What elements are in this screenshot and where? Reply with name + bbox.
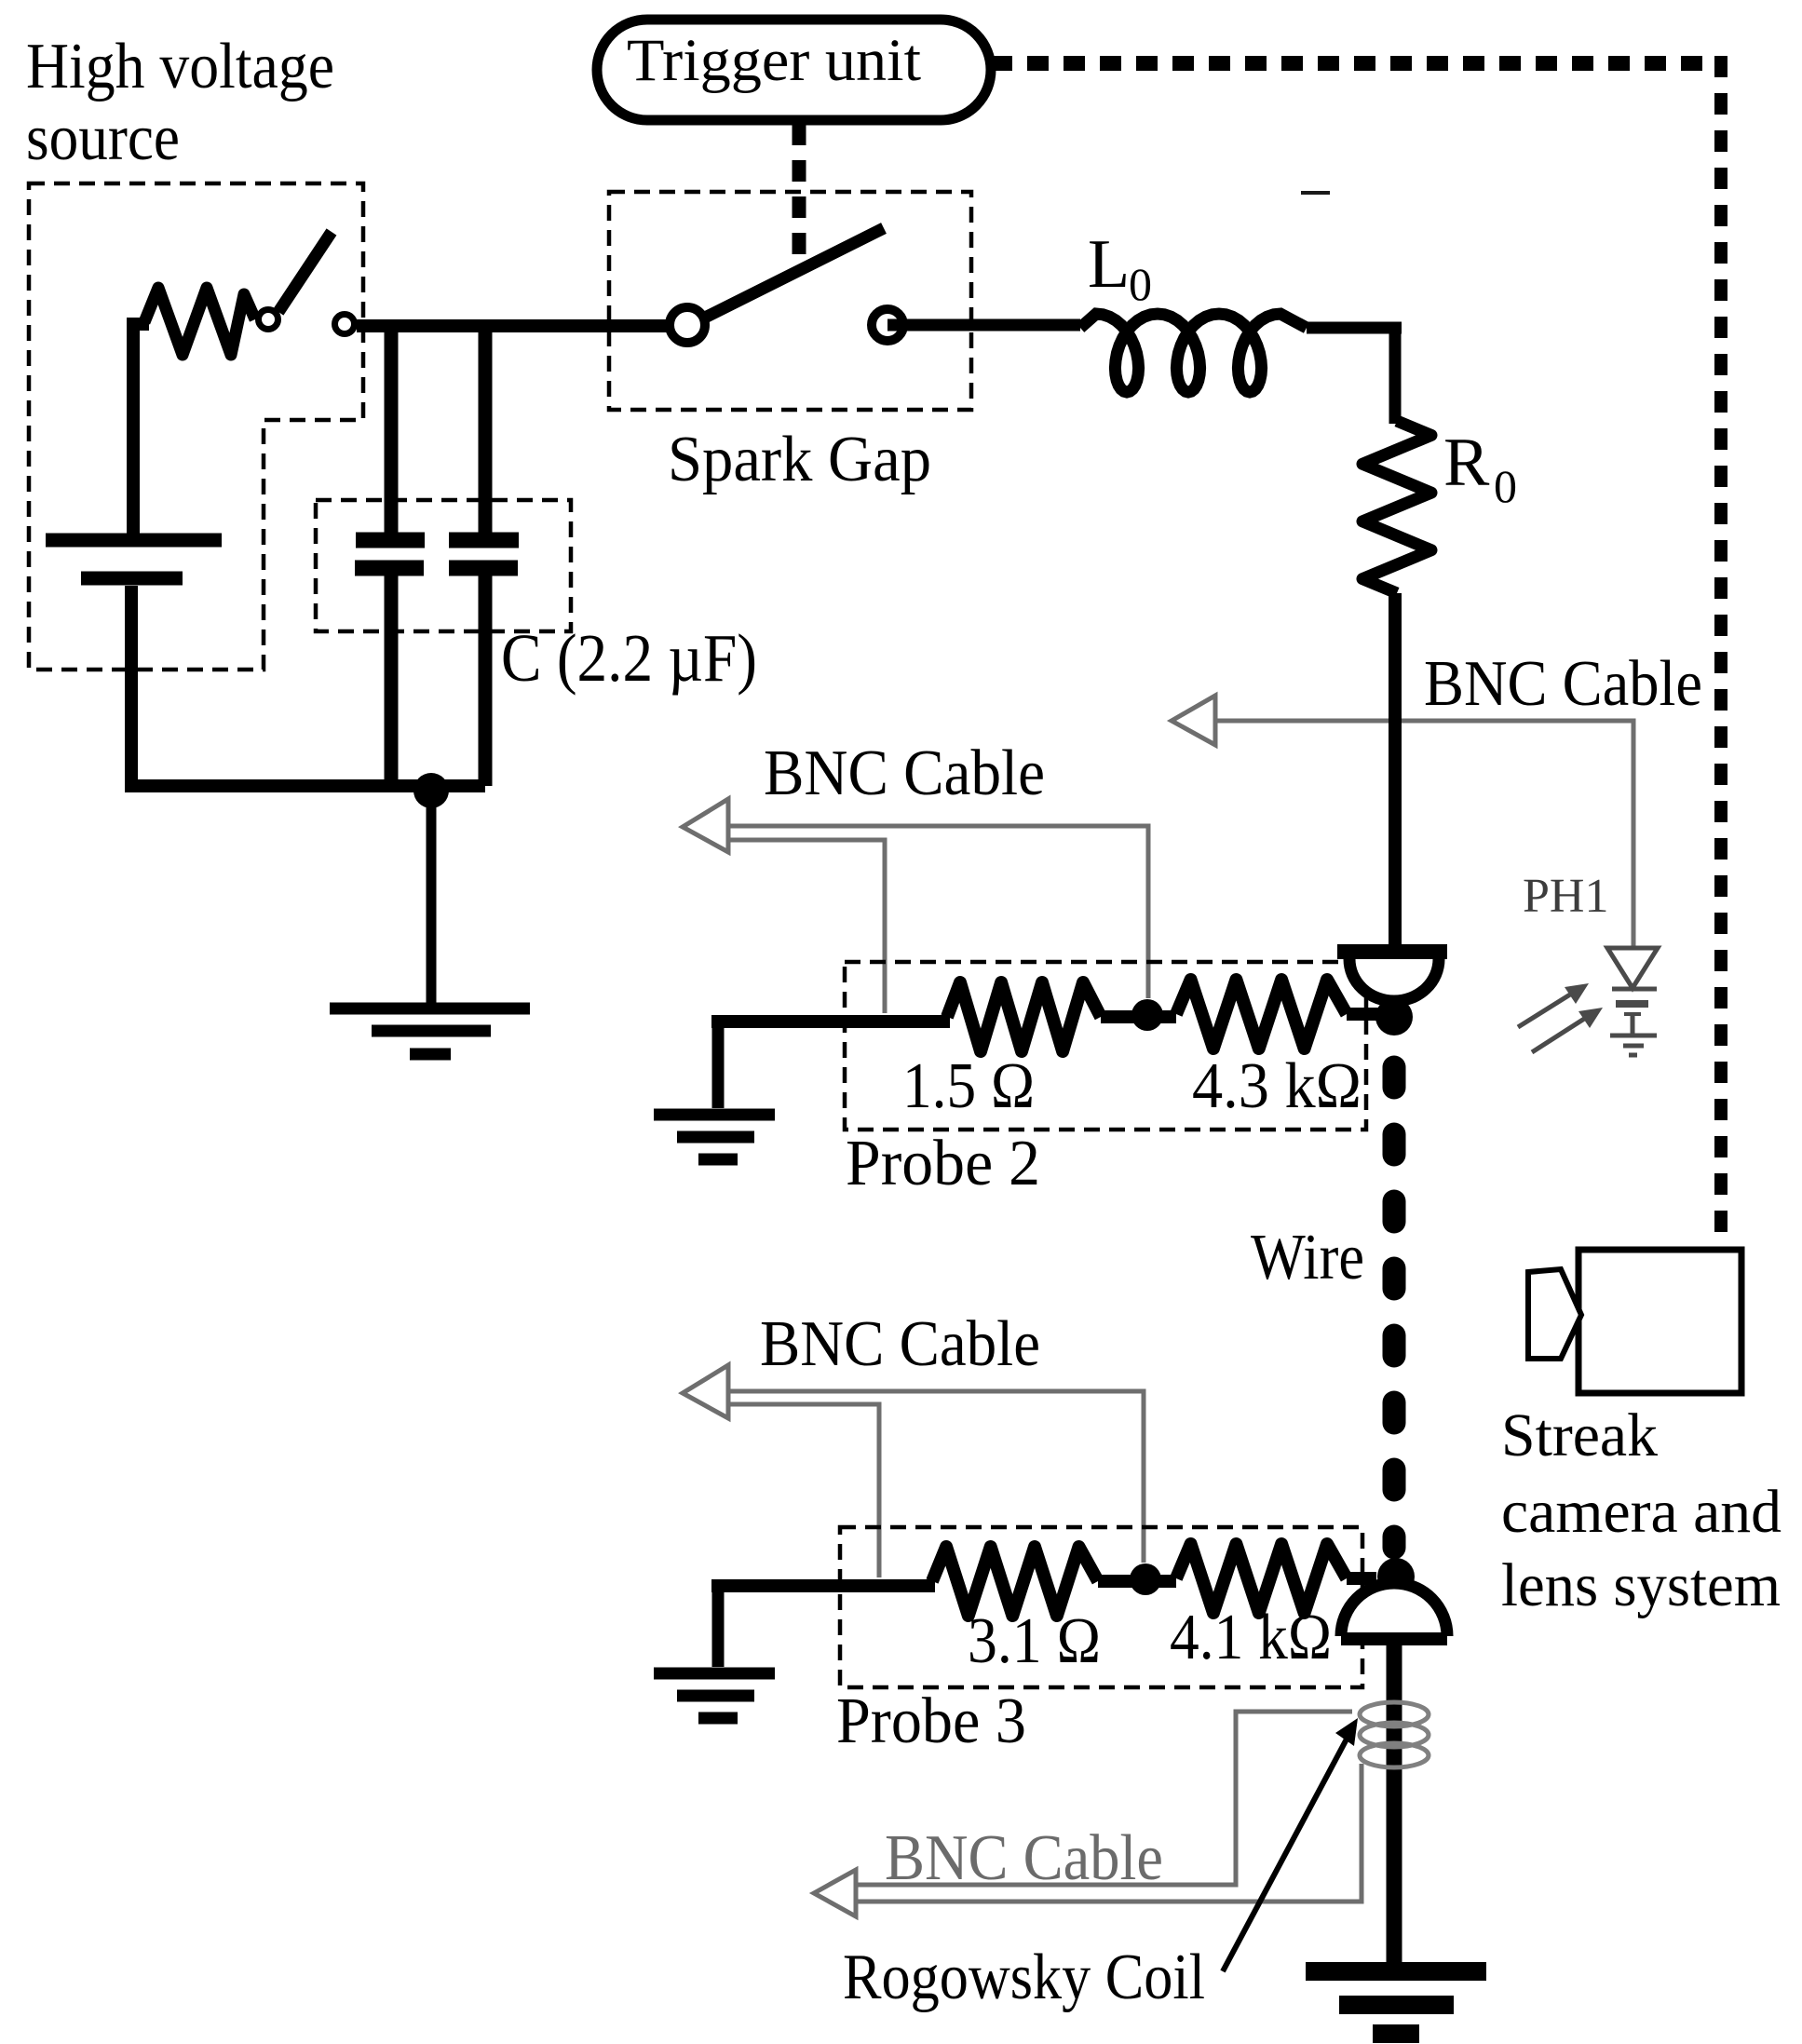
resistor 4.1 kohm — [1176, 1544, 1347, 1613]
svg-text:L: L — [1088, 226, 1130, 303]
lower spark electrode (dome) — [1341, 1583, 1447, 1639]
svg-text:4.1 kΩ: 4.1 kΩ — [1170, 1602, 1332, 1673]
photodiode PH1 — [1607, 948, 1658, 1055]
svg-text:Wire: Wire — [1251, 1222, 1364, 1293]
high voltage source dashed enclosure — [29, 183, 363, 670]
svg-text:Spark Gap: Spark Gap — [668, 424, 931, 495]
BNC cable from probe 2 (gray) — [683, 799, 1148, 1013]
svg-text:source: source — [26, 102, 180, 174]
svg-text:Probe 2: Probe 2 — [846, 1128, 1040, 1199]
wire: capacitor 1 top lead — [385, 328, 399, 533]
wire: 4.3k to electrode node — [1347, 1008, 1378, 1021]
resistor R0 — [1362, 421, 1431, 593]
light arrows into PH1 — [1518, 983, 1603, 1052]
ground (bottom right) — [1306, 1971, 1486, 2034]
arrow to Rogowsky coil — [1223, 1718, 1358, 1971]
wire: 4.1k to electrode node — [1347, 1572, 1376, 1585]
wire: probe 3 ground stem — [712, 1581, 725, 1667]
svg-text:1.5 Ω: 1.5 Ω — [902, 1050, 1035, 1122]
streak camera body — [1578, 1250, 1741, 1393]
svg-text:R: R — [1443, 425, 1490, 501]
wire: R0 down to upper electrode — [1389, 593, 1402, 946]
trigger unit box — [597, 20, 991, 120]
svg-text:0: 0 — [1129, 258, 1152, 310]
wire: lower electrode to ground — [1387, 1645, 1402, 1967]
exploding wire (dashed) — [1383, 1067, 1406, 1548]
switch contact circle (HV source) — [259, 310, 278, 330]
BNC cable to PH1 (gray) — [1172, 696, 1633, 946]
ground (probe 3) — [654, 1673, 775, 1718]
svg-text:4.3 kΩ: 4.3 kΩ — [1192, 1050, 1362, 1122]
junction node probe 3 divider — [1130, 1563, 1161, 1595]
wire: inductor to corner — [1307, 322, 1402, 334]
junction node above lower electrode — [1377, 1558, 1415, 1595]
capacitor C2 — [449, 540, 519, 568]
svg-text:PH1: PH1 — [1523, 870, 1608, 923]
probe 2 dashed box — [845, 962, 1366, 1130]
wire: probe 2 left leg — [718, 1015, 950, 1022]
svg-text:camera and: camera and — [1501, 1478, 1782, 1546]
junction node below upper electrode — [1375, 998, 1413, 1036]
spark gap left contact circle — [670, 307, 705, 343]
svg-text:Probe 3: Probe 3 — [836, 1685, 1026, 1757]
svg-text:Trigger unit: Trigger unit — [627, 27, 921, 94]
BNC cable from Rogowsky coil (gray) — [814, 1712, 1362, 1916]
ground (main) — [330, 1008, 530, 1054]
label Streak camera and lens system — [1501, 1401, 1782, 1619]
wire: battery bottom to ground node — [131, 586, 485, 786]
junction node probe 2 divider — [1131, 999, 1163, 1031]
battery symbol — [46, 540, 222, 578]
svg-text:lens system: lens system — [1501, 1551, 1781, 1619]
svg-text:3.1 Ω: 3.1 Ω — [968, 1605, 1101, 1677]
wire: capacitor 2 bottom lead — [479, 575, 493, 786]
svg-text:0: 0 — [1494, 460, 1517, 512]
svg-text:BNC Cable: BNC Cable — [1424, 648, 1702, 720]
spark gap right contact circle — [872, 309, 903, 341]
resistor 3.1 ohm — [932, 1547, 1098, 1616]
switch open terminal circle — [335, 315, 355, 334]
capacitor bank dashed box — [316, 500, 571, 631]
stray tick mark — [1301, 191, 1330, 195]
switch blade (HV source) — [278, 232, 332, 312]
wire: battery left vertical — [133, 324, 149, 535]
wire: ground stem — [427, 791, 437, 1004]
wire: capacitor 2 top lead — [479, 328, 493, 533]
label L0 — [1088, 226, 1152, 310]
streak camera lens — [1528, 1269, 1581, 1359]
ground (probe 2) — [654, 1115, 775, 1159]
svg-text:Streak: Streak — [1501, 1401, 1658, 1469]
BNC cable from probe 3 (gray) — [683, 1365, 1144, 1577]
svg-text:BNC Cable: BNC Cable — [760, 1308, 1040, 1380]
wire: probe 2 ground stem — [712, 1017, 725, 1108]
wire: between resistors probe 3 — [1098, 1575, 1176, 1588]
trigger dashed line horizontal — [991, 56, 1714, 71]
resistor 4.3 kohm — [1176, 980, 1347, 1049]
probe 3 dashed box — [840, 1527, 1362, 1687]
wire: main top bus — [357, 319, 672, 332]
upper spark electrode (dome) — [1337, 952, 1447, 1001]
wire: spark gap to inductor — [887, 319, 1080, 332]
trigger dashed line down to camera — [1714, 56, 1727, 1250]
resistor (HV source internal) — [144, 288, 255, 355]
label High voltage source — [26, 31, 334, 174]
svg-text:BNC Cable: BNC Cable — [885, 1822, 1163, 1894]
inductor L0 — [1080, 314, 1307, 392]
spark gap dashed box — [609, 192, 971, 410]
wire: between resistors probe 2 — [1101, 1010, 1176, 1023]
wire: capacitor 1 bottom lead — [385, 575, 399, 786]
svg-text:C (2.2 µF): C (2.2 µF) — [501, 620, 757, 696]
trigger dashed line to spark gap — [793, 124, 806, 265]
wire: probe 3 left leg — [718, 1579, 935, 1586]
svg-text:Rogowsky Coil: Rogowsky Coil — [843, 1942, 1205, 2013]
capacitor C1 — [355, 540, 425, 568]
svg-text:BNC Cable: BNC Cable — [764, 738, 1045, 809]
label R0 — [1443, 425, 1517, 512]
svg-text:High voltage: High voltage — [26, 31, 334, 102]
junction node (ground tap) — [413, 773, 449, 808]
Rogowsky coil (gray) — [1360, 1702, 1429, 1767]
resistor 1.5 ohm — [947, 982, 1101, 1051]
wire: corner down to R0 — [1389, 322, 1402, 424]
spark gap blade — [705, 228, 884, 318]
